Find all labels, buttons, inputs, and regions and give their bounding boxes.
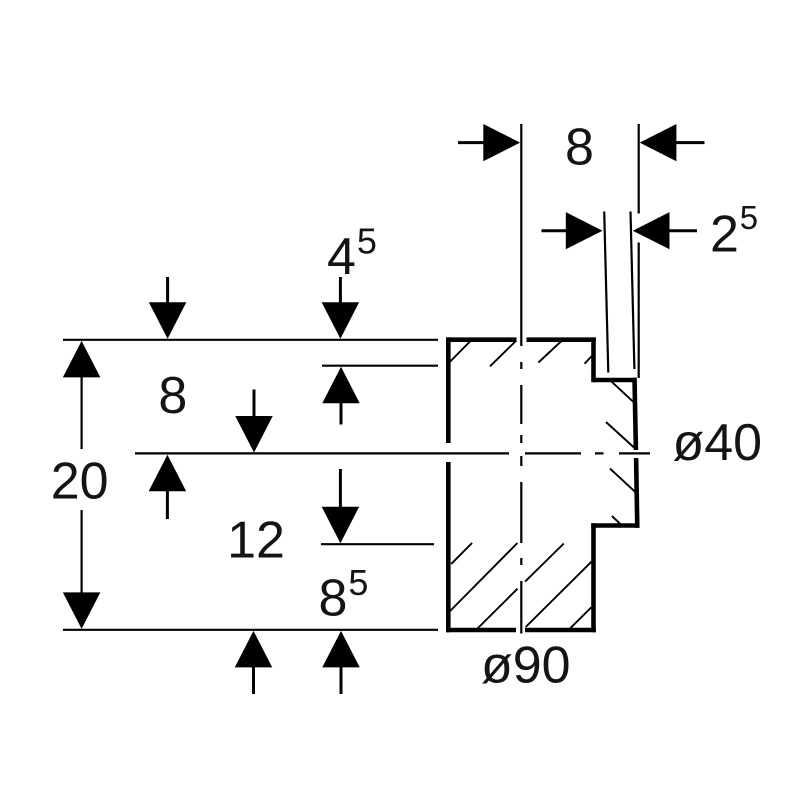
label diameter 40 bbox=[673, 414, 763, 472]
svg-text:ø40: ø40 bbox=[673, 414, 763, 472]
dimension 8 down arrow bbox=[235, 390, 273, 453]
label 4 superscript 5 bbox=[327, 221, 377, 287]
label 2 superscript 5 bbox=[710, 199, 758, 263]
label 12 bbox=[227, 512, 285, 570]
label 8 (left) bbox=[158, 367, 187, 425]
hatch line bottom band 2 bbox=[450, 543, 517, 611]
label 20 bbox=[51, 453, 109, 511]
dimension 4.5 up arrow bbox=[322, 367, 360, 425]
label 8 (top) bbox=[565, 119, 594, 177]
dimension 2.5 left-pointing arrow bbox=[633, 212, 697, 249]
extension line at flange bottom level bbox=[63, 629, 438, 631]
hatch line spigot 4 bbox=[612, 516, 621, 524]
dimension 12 up arrow bbox=[235, 631, 273, 694]
svg-text:ø90: ø90 bbox=[481, 637, 571, 695]
hatch line bottom band 1 bbox=[451, 543, 472, 564]
extension line at flange top level bbox=[63, 339, 438, 341]
dimension 8.5 down arrow bbox=[322, 469, 360, 543]
dimension 20 up arrowhead bbox=[63, 341, 101, 378]
outline: lower right edge of flange body bbox=[591, 523, 596, 632]
svg-text:8: 8 bbox=[565, 119, 594, 177]
outline: spigot bottom step edge bbox=[591, 523, 639, 528]
outline: upper right edge of flange body bbox=[591, 337, 596, 382]
label diameter 90 bbox=[481, 637, 571, 695]
hatch line top band 3 bbox=[538, 341, 562, 363]
dimension 4.5 right down arrow bbox=[322, 277, 360, 339]
outline: bottom edge of flange body bbox=[446, 628, 596, 633]
dimension 20 down arrowhead bbox=[63, 592, 101, 629]
outline: top edge of flange body bbox=[446, 337, 596, 342]
vertical center line (axis, dash-dot) bbox=[520, 124, 522, 634]
hatch line bottom band 3 left part bbox=[478, 589, 518, 629]
outline: spigot top step edge bbox=[594, 378, 637, 383]
dimension 8.5 up arrow bbox=[322, 631, 360, 694]
dimension 20 vertical line bbox=[80, 376, 82, 593]
hatch line top band 1 bbox=[450, 342, 471, 363]
dimension 2.5 right-pointing arrow bbox=[542, 212, 603, 249]
hatch line bottom band 4 bbox=[526, 561, 592, 627]
top dimension 8 right-pointing arrow bbox=[458, 124, 520, 161]
slanted extension line for 2.5 (left) bbox=[604, 212, 608, 373]
top dimension 8 left-pointing arrow bbox=[640, 124, 705, 161]
hatch line bottom band 5 bbox=[570, 607, 592, 629]
hatch line spigot 1 bbox=[612, 382, 634, 403]
label 8 superscript 5 bbox=[319, 562, 369, 628]
hatch line bottom band 3 right part bbox=[525, 544, 564, 582]
extension line at 4.5 step level bbox=[322, 365, 438, 367]
svg-text:20: 20 bbox=[51, 453, 109, 511]
hatch line top band 4 bbox=[585, 356, 593, 364]
horizontal center line (axis, dash-dot) bbox=[135, 452, 650, 454]
svg-text:8: 8 bbox=[158, 367, 187, 425]
hatch line top band 2 bbox=[490, 341, 516, 367]
hatch line spigot 3 bbox=[610, 469, 636, 493]
dimension 8 up arrow bbox=[149, 455, 187, 519]
extension line right of spigot bbox=[638, 124, 640, 378]
hatch line spigot 2 bbox=[606, 422, 634, 448]
outline: left edge of flange body bbox=[446, 337, 451, 632]
extension line at 8.5 step level bbox=[321, 543, 434, 545]
outline: spigot tapered right edge bbox=[635, 378, 638, 528]
svg-text:12: 12 bbox=[227, 512, 285, 570]
dimension 4.5 left down arrow bbox=[149, 277, 187, 339]
slanted extension line for 2.5 (right) bbox=[631, 212, 635, 370]
